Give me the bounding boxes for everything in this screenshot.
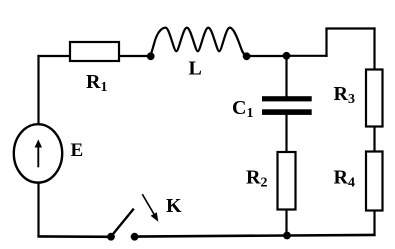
wire R4 to bottom	[373, 211, 375, 237]
svg-text:L: L	[189, 58, 202, 80]
wire bottom left segment	[37, 235, 111, 238]
svg-text:R4: R4	[334, 167, 355, 191]
resistor R4	[366, 152, 383, 211]
current source E ellipse	[14, 124, 62, 182]
svg-text:R2: R2	[246, 167, 267, 191]
current source arrow	[35, 139, 42, 167]
wire left vertical upper	[37, 55, 39, 125]
wire step horizontal top	[325, 27, 375, 29]
wire top-left horizontal	[37, 55, 70, 57]
wire R2 to bottom	[285, 210, 287, 236]
node dot right of L	[243, 52, 251, 60]
resistor R2	[278, 152, 296, 210]
switch K right dot	[131, 233, 139, 241]
inductor L	[149, 28, 247, 57]
wire R3 to R4	[373, 127, 375, 153]
wire L to node	[247, 55, 287, 57]
wire C1 lower	[285, 115, 287, 153]
node dot left of L	[147, 52, 155, 60]
wire bottom right segment	[134, 235, 375, 237]
resistor R3	[366, 70, 383, 127]
wire C1 upper	[285, 56, 287, 97]
wire R1 to L	[119, 55, 151, 57]
switch K actuate arrow	[142, 194, 158, 222]
capacitor C1 top plate	[262, 96, 312, 101]
svg-text:E: E	[71, 140, 84, 161]
node C1 junction	[283, 52, 291, 60]
wire left vertical lower	[37, 183, 39, 237]
wire step vertical	[325, 29, 327, 57]
switch K left dot	[107, 233, 115, 241]
node dot bottom junction	[283, 232, 291, 240]
svg-text:R1: R1	[86, 71, 107, 95]
wire node to step	[287, 55, 328, 57]
svg-text:R3: R3	[334, 83, 355, 107]
switch K blade	[111, 209, 134, 237]
svg-text:C1: C1	[232, 97, 253, 121]
resistor R1	[70, 42, 119, 61]
wire down to R3	[373, 27, 375, 70]
svg-text:K: K	[166, 195, 182, 217]
capacitor C1 bottom plate	[262, 109, 312, 115]
